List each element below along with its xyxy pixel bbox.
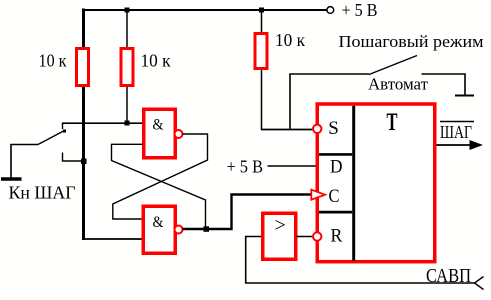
wire D input	[268, 165, 316, 167]
node junction R2-upper input	[125, 121, 130, 126]
switch Кн ШАГ blade	[38, 131, 65, 145]
node junction rail-R3	[259, 8, 264, 13]
connector chevron САВП	[475, 277, 484, 290]
wire lower contact to bus	[63, 160, 86, 162]
wire left vertical bus (thick)	[82, 9, 85, 241]
svg-text:10 к: 10 к	[39, 51, 67, 71]
ground	[1, 177, 22, 181]
wire R2 top/bottom lead	[126, 10, 128, 124]
arrowhead ШАГ	[470, 140, 484, 150]
svg-text:&: &	[153, 214, 164, 231]
comparator box >	[263, 213, 296, 259]
wire mode switch right contact	[422, 74, 466, 95]
svg-text:+ 5 В: + 5 В	[227, 157, 264, 177]
svg-text:R: R	[331, 226, 343, 247]
svg-text:САВП: САВП	[426, 265, 471, 287]
wire +5V top rail	[82, 9, 327, 11]
wire lower gate bottom input from bus	[84, 238, 144, 240]
wire S net branch up to mode switch	[290, 74, 369, 130]
svg-text:Кн ШАГ: Кн ШАГ	[9, 183, 76, 203]
svg-text:ШАГ: ШАГ	[440, 122, 472, 142]
switch Кн ШАГ top contact stub	[62, 123, 64, 130]
wire blade to ground	[11, 145, 38, 179]
svg-text:+ 5 В: + 5 В	[342, 0, 378, 20]
node junction bus-lower contact	[81, 159, 87, 165]
node junction latch output	[204, 226, 210, 232]
NAND gate DD1.2 (lower)	[143, 206, 175, 253]
R input bubble	[313, 232, 321, 240]
svg-text:D: D	[330, 157, 343, 178]
wire DD1.1 output to DD1.2 upper input (diagonal A)	[113, 134, 208, 219]
wire upper input net (switch top contact to gate DD1.1)	[63, 122, 144, 124]
wire DD1.2 output to C input	[183, 195, 312, 230]
flip-flop cell separator S/D	[319, 153, 352, 156]
NAND gate DD1.1 (upper)	[144, 109, 176, 158]
svg-text:Автомат: Автомат	[368, 75, 429, 94]
flip-flop cell separator C/R	[319, 211, 352, 214]
S input bubble	[313, 125, 321, 133]
ground bar (Автомат position)	[455, 95, 474, 97]
terminal +5V circle	[327, 7, 334, 14]
wire comparator output to R	[296, 236, 313, 238]
DD1.2 output bubble	[175, 226, 183, 234]
svg-text:10 к: 10 к	[275, 30, 305, 50]
flip-flop inner pin column line	[352, 106, 355, 261]
wire S input	[262, 129, 314, 131]
switch Кн ШАГ lower contact stub	[62, 153, 64, 162]
wire comparator input from САВП	[246, 237, 475, 284]
DD1.1 output bubble	[175, 130, 183, 138]
svg-text:>: >	[275, 215, 286, 237]
overline of ШАГ	[440, 121, 474, 123]
svg-text:10 к: 10 к	[141, 51, 171, 71]
node junction rail-R2	[125, 8, 130, 13]
resistor R2	[121, 49, 133, 86]
C dynamic input triangle	[311, 190, 325, 200]
svg-text:Пошаговый режим: Пошаговый режим	[339, 32, 484, 51]
resistor R3	[255, 34, 267, 69]
wire R3 lead down to S net	[262, 10, 314, 130]
wire output ШАГ	[437, 144, 478, 146]
flip-flop T box	[317, 104, 435, 262]
svg-text:T: T	[387, 109, 398, 136]
svg-text:S: S	[328, 118, 339, 139]
wire DD1.2 output to DD1.1 lower input (diagonal B)	[112, 144, 206, 229]
svg-text:C: C	[329, 186, 340, 207]
switch mode blade (Пошаговый/Автомат)	[369, 56, 417, 75]
resistor R1	[77, 49, 89, 86]
svg-text:&: &	[153, 117, 164, 134]
